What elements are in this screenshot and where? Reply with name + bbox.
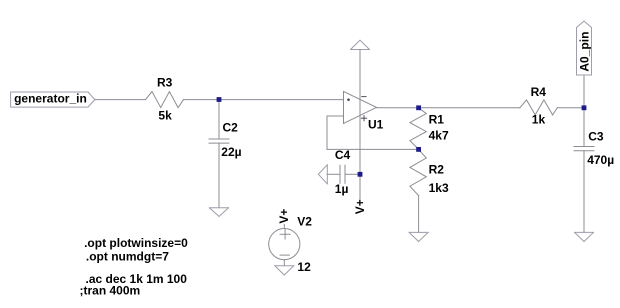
wire C2 top lead (218, 100, 220, 139)
wire C4 right lead (345, 173, 360, 175)
svg-text:U1: U1 (368, 118, 384, 132)
capacitor C4 (335, 148, 351, 196)
wire R4 to junction (557, 107, 584, 109)
svg-text:C2: C2 (223, 120, 239, 134)
ground under C2 (210, 208, 229, 217)
wire C3 bottom lead (583, 151, 585, 233)
svg-text:generator_in: generator_in (14, 92, 87, 106)
net flag A0_pin (577, 21, 592, 108)
svg-text:R4: R4 (531, 85, 547, 99)
node junction C4/V+ (358, 172, 363, 177)
svg-text:R3: R3 (157, 76, 173, 90)
svg-text:.opt plotwinsize=0: .opt plotwinsize=0 (84, 236, 188, 250)
svg-text:V2: V2 (297, 215, 312, 229)
wire C2 bottom lead (218, 143, 220, 208)
svg-text:1µ: 1µ (335, 182, 349, 196)
svg-text:C3: C3 (588, 129, 604, 143)
svg-text:A0_pin: A0_pin (577, 32, 591, 72)
capacitor C3 (574, 129, 614, 167)
ground under C3 (575, 232, 594, 241)
svg-text:V+: V+ (277, 209, 291, 224)
svg-text:V+: V+ (353, 199, 367, 214)
capacitor C2 (209, 120, 242, 159)
op-amp U1 (344, 91, 384, 131)
svg-text:5k: 5k (158, 109, 172, 123)
svg-text:1k: 1k (532, 113, 546, 127)
resistor R2 (410, 149, 449, 232)
svg-text:22µ: 22µ (221, 145, 241, 159)
wire junction to C3 (583, 108, 585, 147)
svg-text:1k3: 1k3 (429, 181, 449, 195)
svg-text:12: 12 (297, 260, 311, 274)
svg-text:4k7: 4k7 (429, 128, 449, 142)
node junction R1/R2/feedback (416, 147, 421, 152)
resistor R3 (146, 76, 184, 123)
ground left-pointing at C4 (318, 165, 327, 184)
svg-text:R1: R1 (429, 112, 445, 126)
svg-text:.opt numdgt=7: .opt numdgt=7 (86, 250, 169, 264)
resistor R4 (520, 85, 558, 127)
wire inverting input (327, 115, 344, 117)
ground under R2 (409, 232, 428, 241)
svg-text:470µ: 470µ (587, 153, 614, 167)
wire feedback horizontal (327, 148, 419, 150)
net flag V+ at op-amp supply (353, 174, 367, 214)
net flag generator_in (11, 92, 95, 108)
svg-text:;tran 400m: ;tran 400m (80, 284, 141, 298)
wire op-amp output (377, 107, 520, 109)
wire R3 to op-amp +input (184, 99, 344, 101)
node junction R3/C2 (217, 97, 222, 102)
wire flag to R3 (95, 99, 146, 101)
svg-text:R2: R2 (429, 163, 445, 177)
wire feedback vertical (326, 116, 328, 149)
node junction output/R1 (416, 105, 421, 110)
voltage source V2 (269, 215, 313, 275)
wire C4 left lead (327, 173, 340, 175)
wire power line through U1 (359, 50, 361, 175)
svg-text:C4: C4 (335, 148, 351, 162)
ground under V2 (275, 266, 294, 275)
node junction R4/A0_pin/C3 (582, 105, 587, 110)
power ground (flipped) above U1 (351, 40, 370, 49)
resistor R1 (410, 108, 449, 150)
